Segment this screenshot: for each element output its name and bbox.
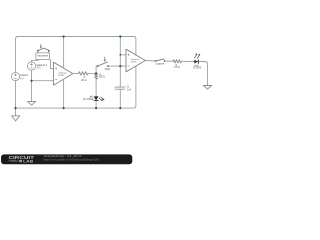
svg-text:microphone: microphone xyxy=(37,55,49,58)
svg-text:FL285: FL285 xyxy=(131,62,137,64)
svg-text:coupure: coupure xyxy=(156,61,165,65)
svg-text:http://circuitlab.com/c/hyvo5d: http://circuitlab.com/c/hyvo5deqds29 xyxy=(44,159,100,162)
svg-text:170 Ω: 170 Ω xyxy=(174,66,180,69)
svg-text:SW(t): SW(t) xyxy=(105,67,111,71)
svg-text:LTL-307EE: LTL-307EE xyxy=(193,66,201,69)
svg-text:10 V: 10 V xyxy=(37,66,41,70)
svg-text:FL387: FL387 xyxy=(59,75,65,77)
svg-text:LAB: LAB xyxy=(23,160,33,164)
svg-text:9 V: 9 V xyxy=(20,76,23,80)
svg-text:46 Ω: 46 Ω xyxy=(81,78,87,82)
svg-text:LTL-307EE: LTL-307EE xyxy=(83,98,94,101)
svg-text:1 µF: 1 µF xyxy=(127,88,132,92)
svg-text:100 Ω: 100 Ω xyxy=(99,75,105,79)
